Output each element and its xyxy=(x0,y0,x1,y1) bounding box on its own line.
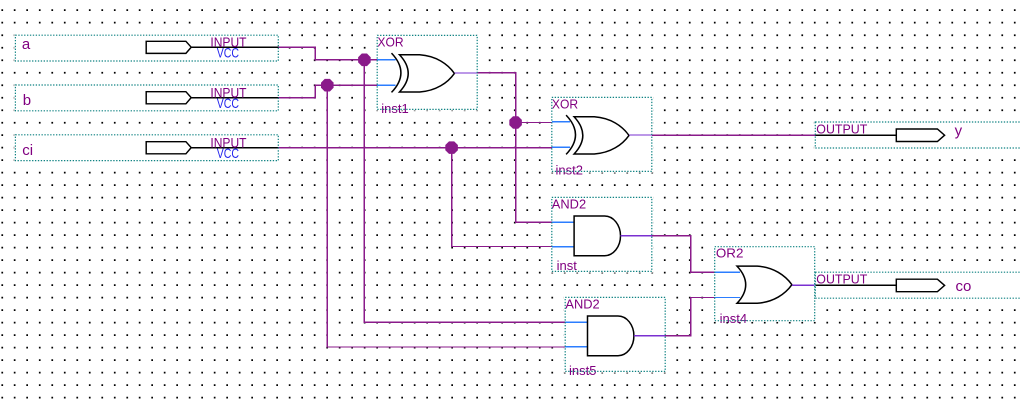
gate inst input stub B xyxy=(552,246,574,248)
gate inst1 xor input arc xyxy=(392,53,401,92)
svg-text:co: co xyxy=(956,278,972,295)
input pin b selection box xyxy=(15,85,278,111)
gate inst4 input stub A xyxy=(715,271,741,273)
gate inst1 selection box xyxy=(377,35,477,109)
svg-text:XOR: XOR xyxy=(552,96,578,111)
gate inst1 body xyxy=(400,55,455,92)
svg-text:b: b xyxy=(23,92,31,109)
svg-text:OUTPUT: OUTPUT xyxy=(816,122,867,137)
gate inst selection box xyxy=(552,197,652,271)
svg-text:inst4: inst4 xyxy=(720,311,747,326)
input pin a symbol xyxy=(146,41,191,53)
wire: b pin lead xyxy=(191,97,278,99)
gate inst1 output stub xyxy=(454,72,477,74)
svg-text:OUTPUT: OUTPUT xyxy=(816,272,867,287)
junction node on net ci xyxy=(445,141,458,154)
symbol background: gate inst1 xyxy=(376,34,478,110)
input pin ci selection box xyxy=(15,135,278,161)
svg-text:VCC: VCC xyxy=(217,95,239,111)
gate inst2 xor input arc xyxy=(566,115,575,154)
symbol background: gate inst5 xyxy=(564,296,666,372)
input pin a selection box xyxy=(15,35,278,61)
svg-text:AND2: AND2 xyxy=(552,196,586,211)
gate inst5 output stub xyxy=(634,335,665,337)
wire: y pin lead xyxy=(815,134,896,136)
wire: co pin lead xyxy=(815,284,896,286)
wire: XOR1 output net to XOR2 and AND2 inst xyxy=(477,73,552,223)
gate inst2 input stub A xyxy=(552,121,570,123)
input pin ci symbol xyxy=(146,142,191,154)
output pin co selection box xyxy=(815,272,1021,298)
wire: XOR2 output to OUTPUT y xyxy=(652,134,816,136)
wire: XOR1 output tap to XOR2 input xyxy=(516,122,552,124)
svg-text:XOR: XOR xyxy=(377,34,403,49)
symbol background: input pin ci xyxy=(14,134,279,162)
svg-text:y: y xyxy=(955,123,963,140)
symbol background: gate inst4 xyxy=(714,246,816,322)
svg-text:inst1: inst1 xyxy=(381,101,408,116)
gate inst4 body xyxy=(737,266,792,303)
symbol background: input pin a xyxy=(14,34,279,62)
junction node on net a xyxy=(358,54,371,67)
gate inst input stub A xyxy=(552,221,574,223)
gate inst5 input stub A xyxy=(565,321,587,323)
wire: AND2 inst5 output to OR2 input xyxy=(665,298,715,336)
output pin co symbol xyxy=(896,279,944,292)
gate inst2 input stub B xyxy=(552,146,570,148)
svg-text:inst: inst xyxy=(557,258,578,273)
gate inst body xyxy=(574,216,620,256)
gate inst5 body xyxy=(588,316,634,356)
wire: ci pin lead xyxy=(191,147,278,149)
wire: net ci horizontal run xyxy=(278,147,552,149)
junction node on XOR1 output net xyxy=(509,116,522,129)
wire: branch b down to AND2 inst5 xyxy=(327,85,565,347)
svg-text:VCC: VCC xyxy=(217,145,239,161)
input pin b symbol xyxy=(146,92,191,104)
gate inst1 input stub B xyxy=(377,84,395,86)
symbol background: output pin y xyxy=(814,121,1021,149)
wire: net a from pin to corner xyxy=(278,47,377,60)
wire: a pin lead xyxy=(191,46,278,48)
wire: AND2 inst output to OR2 input xyxy=(652,236,715,273)
svg-text:OR2: OR2 xyxy=(716,246,744,261)
gate inst4 selection box xyxy=(715,247,815,321)
gate inst2 selection box xyxy=(552,97,652,171)
output pin y symbol xyxy=(896,129,944,142)
svg-text:ci: ci xyxy=(22,142,33,159)
gate inst5 input stub B xyxy=(565,346,587,348)
junction node on net b xyxy=(321,79,334,92)
gate inst2 output stub xyxy=(629,134,652,136)
wire: net b from pin to corner xyxy=(278,85,377,97)
wire: branch a down to AND2 inst5 xyxy=(364,60,565,322)
gate inst4 input stub B xyxy=(715,297,741,299)
svg-text:a: a xyxy=(22,36,31,53)
wire: ci branch down to AND2 inst xyxy=(452,148,552,247)
gate inst5 selection box xyxy=(565,297,665,371)
gate inst1 input stub A xyxy=(377,59,395,61)
svg-text:inst2: inst2 xyxy=(556,163,583,178)
symbol background: gate inst2 xyxy=(551,96,653,172)
symbol background: output pin co xyxy=(814,271,1021,299)
svg-text:AND2: AND2 xyxy=(565,296,599,311)
output pin y selection box xyxy=(815,122,1021,148)
symbol background: input pin b xyxy=(14,84,279,112)
gate inst output stub xyxy=(621,235,652,237)
gate inst4 output stub xyxy=(792,284,815,286)
svg-text:inst5: inst5 xyxy=(569,363,596,378)
gate inst2 body xyxy=(574,117,629,154)
svg-text:VCC: VCC xyxy=(217,45,239,61)
symbol background: gate inst xyxy=(551,196,653,272)
